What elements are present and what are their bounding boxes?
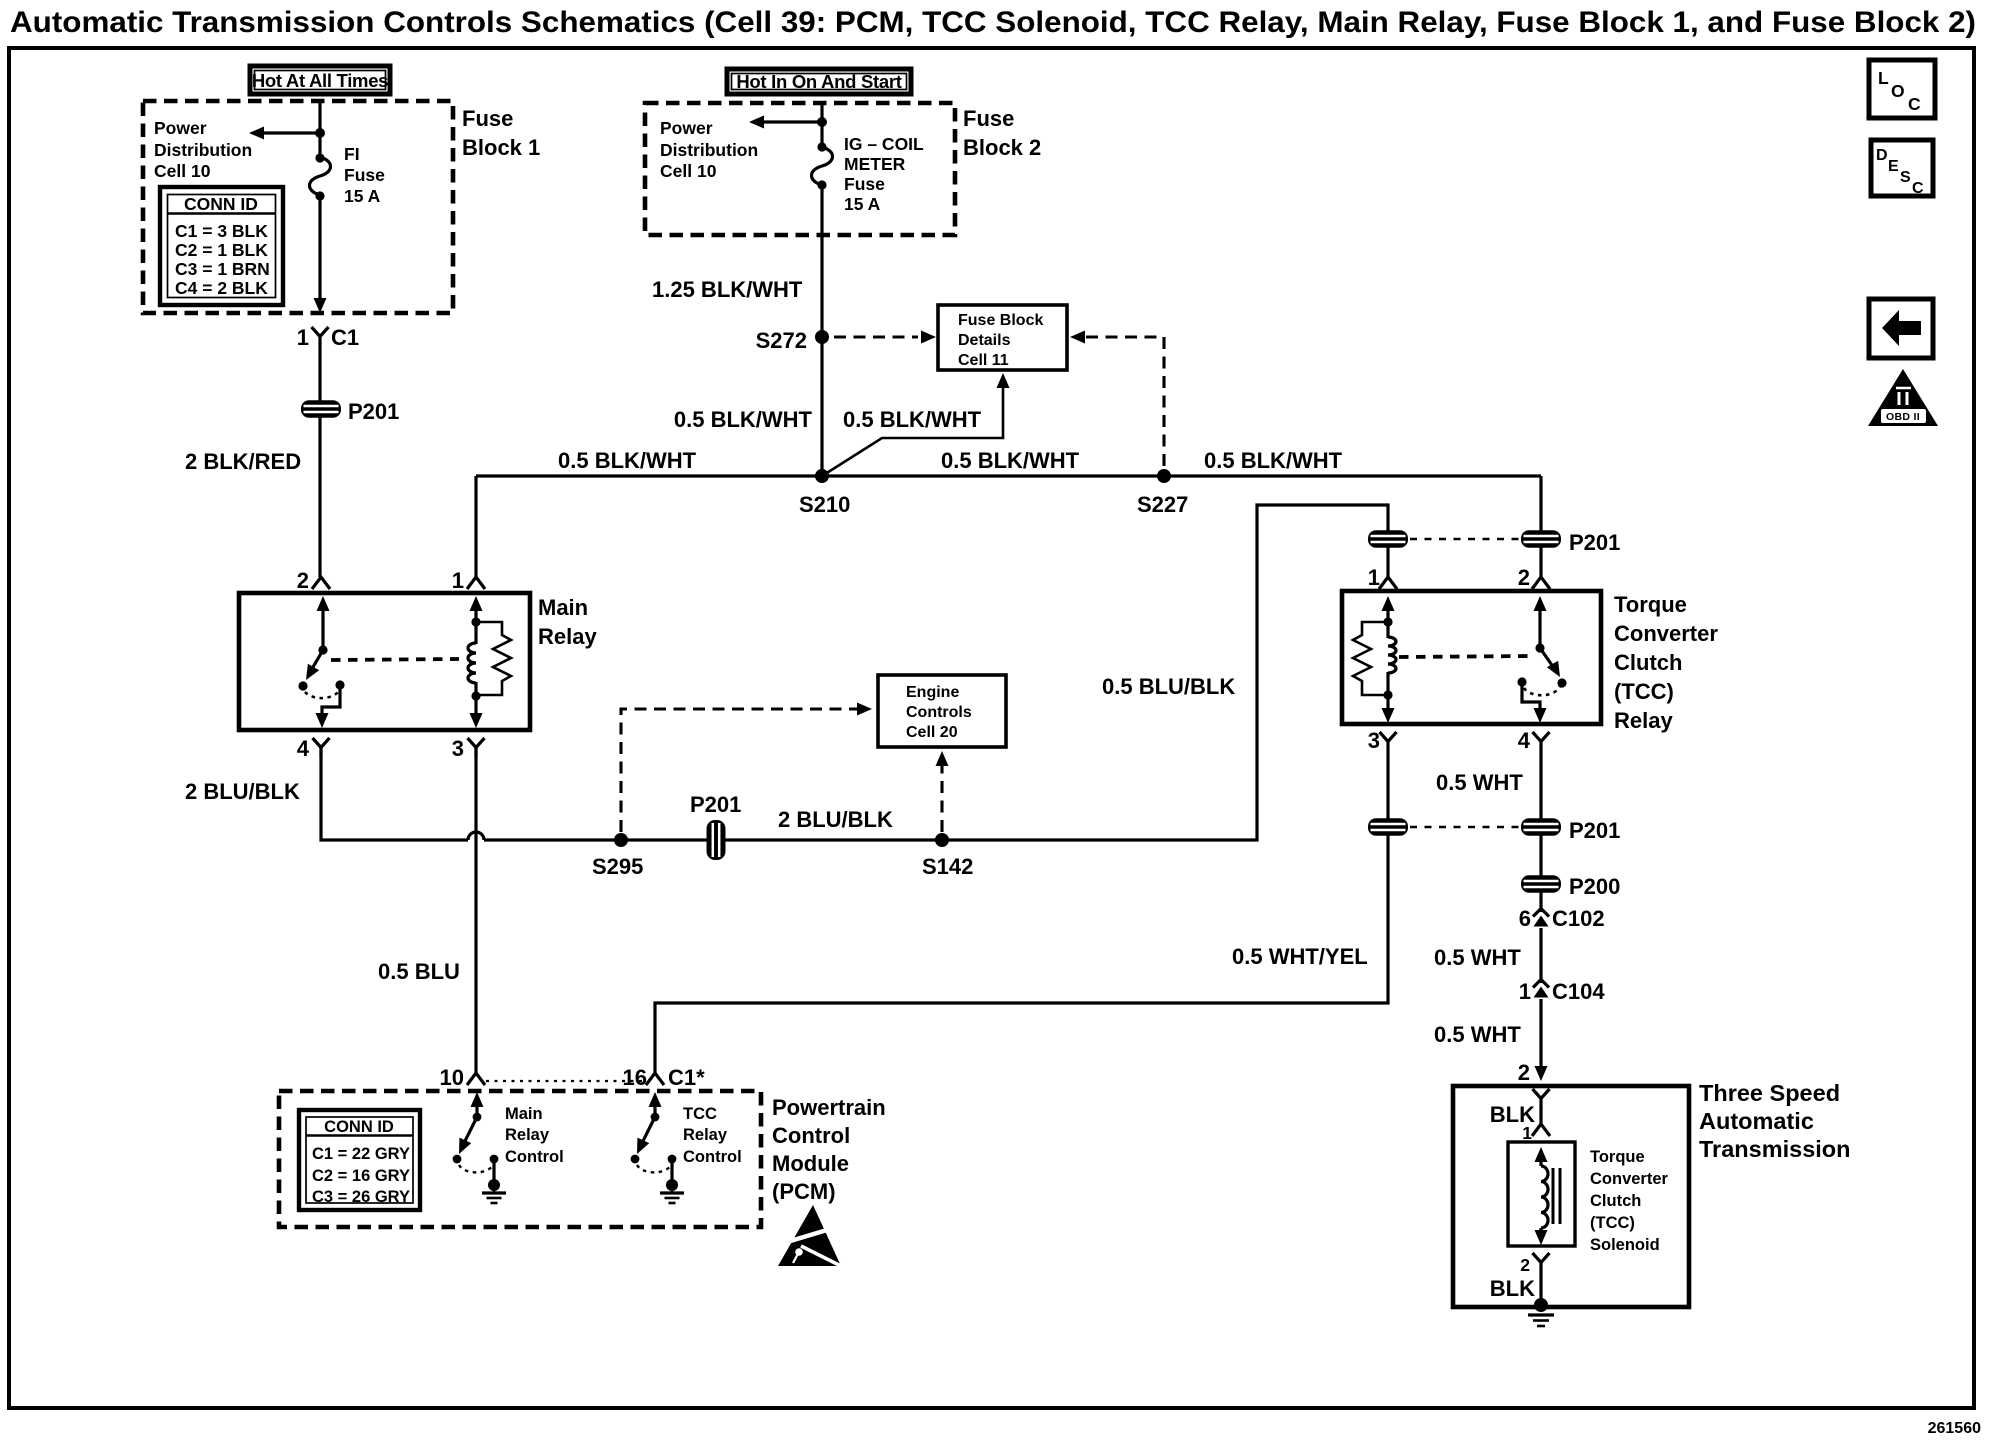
wire hop over 0.5 BLU wire bbox=[468, 832, 484, 840]
svg-text:1.25 BLK/WHT: 1.25 BLK/WHT bbox=[652, 277, 803, 302]
wire S272 to S210 bbox=[820, 337, 823, 476]
svg-text:Fuse: Fuse bbox=[344, 165, 385, 185]
svg-text:L: L bbox=[1878, 68, 1889, 88]
switch (Main Relay) bbox=[298, 596, 344, 728]
svg-text:Cell 11: Cell 11 bbox=[958, 352, 1009, 369]
box Engine Controls Cell 20 bbox=[878, 675, 1006, 747]
node S227 bbox=[1157, 469, 1171, 483]
dashed arrow S295 to Engine Controls bbox=[621, 709, 858, 832]
solenoid TCC Solenoid (box) bbox=[1508, 1142, 1575, 1246]
svg-text:4: 4 bbox=[297, 736, 310, 761]
svg-text:C: C bbox=[1908, 94, 1921, 114]
svg-text:3: 3 bbox=[452, 736, 464, 761]
svg-text:C2 = 1 BLK: C2 = 1 BLK bbox=[175, 240, 268, 260]
mechanical link (Main Relay) bbox=[331, 659, 459, 660]
wire TCC pin 3 down bbox=[1386, 752, 1389, 819]
icon OBD II bbox=[1868, 369, 1938, 426]
node S210 bbox=[815, 469, 829, 483]
driver switch TCC Relay Control bbox=[631, 1092, 677, 1180]
table CONN ID (Fuse Block 1) bbox=[160, 187, 283, 305]
svg-text:S227: S227 bbox=[1137, 492, 1188, 517]
svg-text:C1 = 22 GRY: C1 = 22 GRY bbox=[312, 1145, 410, 1163]
fuse block 1 (dashed enclosure) bbox=[143, 101, 453, 313]
svg-text:D: D bbox=[1876, 147, 1888, 164]
svg-text:IG – COIL: IG – COIL bbox=[844, 134, 924, 154]
svg-text:0.5 BLK/WHT: 0.5 BLK/WHT bbox=[843, 407, 982, 432]
dashed arrow S142 to Engine Controls bbox=[940, 765, 943, 832]
wire bus to TCC relay P201 pin 2 bbox=[1539, 476, 1542, 531]
node S272 bbox=[815, 330, 829, 344]
svg-text:4: 4 bbox=[1518, 728, 1531, 753]
svg-text:FI: FI bbox=[344, 144, 360, 164]
arrow to Power Distribution (FB2) bbox=[761, 120, 822, 123]
svg-text:C3 = 1 BRN: C3 = 1 BRN bbox=[175, 259, 270, 279]
svg-text:Converter: Converter bbox=[1590, 1170, 1669, 1188]
svg-text:Controls: Controls bbox=[906, 704, 972, 721]
ground (transmission case) bbox=[1528, 1298, 1554, 1326]
table CONN ID (PCM) bbox=[299, 1110, 420, 1210]
svg-text:1: 1 bbox=[1519, 979, 1531, 1004]
arrow to Power Distribution (FB1) bbox=[261, 131, 320, 134]
driver switch Main Relay Control bbox=[453, 1092, 499, 1180]
connector boundary line C1 bbox=[486, 1080, 645, 1082]
ground (Main Relay Control) bbox=[482, 1179, 506, 1203]
svg-text:261560: 261560 bbox=[1928, 1420, 1981, 1437]
bus wire 2 BLU/BLK to TCC relay bbox=[484, 505, 1388, 840]
svg-text:BLK: BLK bbox=[1490, 1276, 1535, 1301]
svg-text:Power: Power bbox=[154, 118, 207, 138]
svg-text:O: O bbox=[1891, 81, 1905, 101]
svg-text:Main: Main bbox=[505, 1105, 543, 1123]
svg-text:C2 = 16 GRY: C2 = 16 GRY bbox=[312, 1167, 410, 1185]
svg-text:CONN ID: CONN ID bbox=[184, 194, 258, 214]
svg-text:Main: Main bbox=[538, 595, 588, 620]
svg-text:2: 2 bbox=[1520, 1255, 1530, 1275]
connector P200 bbox=[1521, 875, 1561, 893]
fuse FI 15A (FB1) bbox=[315, 153, 324, 162]
connector P201 (on 2 BLU/BLK bus) bbox=[707, 820, 726, 860]
svg-text:METER: METER bbox=[844, 154, 906, 174]
dashed arrow from S227 to Fuse Block Details bbox=[1070, 331, 1085, 344]
svg-text:C102: C102 bbox=[1552, 906, 1605, 931]
connector P201 (left drop) bbox=[301, 400, 341, 418]
dashed arrow S272 to Fuse Block Details bbox=[834, 335, 918, 338]
svg-text:Relay: Relay bbox=[1614, 708, 1673, 733]
node S142 bbox=[935, 833, 949, 847]
resistor (Main Relay) bbox=[476, 622, 511, 695]
svg-text:TCC: TCC bbox=[683, 1105, 717, 1123]
box Three Speed Automatic Transmission bbox=[1453, 1086, 1689, 1307]
connector 1 C104 bbox=[1533, 980, 1549, 998]
wire to solenoid pin 1 bbox=[1539, 1106, 1542, 1124]
svg-text:6: 6 bbox=[1519, 906, 1531, 931]
wire Main Relay pin 4 to bus 2 BLU/BLK bbox=[321, 747, 468, 840]
svg-text:C3 = 26 GRY: C3 = 26 GRY bbox=[312, 1188, 410, 1206]
wire bus to Main Relay pin 1 bbox=[474, 476, 477, 577]
svg-text:Control: Control bbox=[772, 1123, 850, 1148]
svg-text:P201: P201 bbox=[1569, 530, 1620, 555]
svg-text:0.5 BLU: 0.5 BLU bbox=[378, 959, 460, 984]
svg-text:(TCC): (TCC) bbox=[1590, 1214, 1635, 1232]
svg-text:Block 2: Block 2 bbox=[963, 135, 1041, 160]
svg-text:OBD II: OBD II bbox=[1886, 411, 1920, 423]
svg-text:Control: Control bbox=[683, 1148, 742, 1166]
icon LOC bbox=[1869, 60, 1935, 118]
connector 1 C1 bbox=[312, 327, 329, 347]
svg-text:Torque: Torque bbox=[1614, 592, 1687, 617]
svg-text:(PCM): (PCM) bbox=[772, 1179, 836, 1204]
svg-text:CONN ID: CONN ID bbox=[324, 1118, 394, 1136]
svg-text:Solenoid: Solenoid bbox=[1590, 1236, 1660, 1254]
coil (Main Relay) bbox=[468, 596, 483, 728]
svg-text:C4 = 2 BLK: C4 = 2 BLK bbox=[175, 278, 268, 298]
svg-text:Powertrain: Powertrain bbox=[772, 1095, 886, 1120]
wire C104 to transmission pin 2 (0.5 WHT) bbox=[1539, 999, 1542, 1066]
wire P201 to Main Relay pin 2 (2 BLK/RED) bbox=[318, 417, 321, 577]
svg-text:1: 1 bbox=[452, 568, 464, 593]
svg-text:Converter: Converter bbox=[1614, 621, 1718, 646]
fuse block 2 (dashed enclosure) bbox=[645, 103, 955, 235]
svg-text:S295: S295 bbox=[592, 854, 643, 879]
svg-text:0.5 BLU/BLK: 0.5 BLU/BLK bbox=[1102, 674, 1235, 699]
svg-text:Automatic Transmission Control: Automatic Transmission Controls Schemati… bbox=[10, 6, 1976, 39]
svg-text:2: 2 bbox=[1518, 565, 1530, 590]
svg-text:Clutch: Clutch bbox=[1614, 650, 1682, 675]
svg-text:10: 10 bbox=[440, 1065, 464, 1090]
connector P201 (TCC top pair) bbox=[1368, 530, 1408, 548]
wire P201 to P200 bbox=[1539, 835, 1542, 877]
svg-text:S142: S142 bbox=[922, 854, 973, 879]
svg-text:P200: P200 bbox=[1569, 874, 1620, 899]
svg-text:0.5 BLK/WHT: 0.5 BLK/WHT bbox=[558, 448, 697, 473]
svg-text:Block 1: Block 1 bbox=[462, 135, 540, 160]
symbol ESD warning bbox=[778, 1205, 843, 1267]
svg-text:3: 3 bbox=[1368, 728, 1380, 753]
svg-text:Fuse: Fuse bbox=[844, 174, 885, 194]
svg-text:C: C bbox=[1912, 180, 1924, 197]
wire solenoid to ground bbox=[1539, 1273, 1542, 1305]
wire 0.5 WHT/YEL P201 to PCM pin 16 bbox=[655, 835, 1388, 1073]
svg-text:S272: S272 bbox=[756, 328, 807, 353]
resistor (TCC Relay) bbox=[1353, 622, 1388, 695]
svg-text:Distribution: Distribution bbox=[660, 140, 758, 160]
svg-text:C104: C104 bbox=[1552, 979, 1605, 1004]
svg-text:0.5 BLK/WHT: 0.5 BLK/WHT bbox=[1204, 448, 1343, 473]
svg-text:15 A: 15 A bbox=[844, 194, 881, 214]
svg-text:0.5 BLK/WHT: 0.5 BLK/WHT bbox=[674, 407, 813, 432]
svg-text:Torque: Torque bbox=[1590, 1148, 1645, 1166]
svg-text:Relay: Relay bbox=[538, 624, 597, 649]
junction in FB2 bbox=[817, 117, 827, 127]
wire Main Relay pin 3 to PCM pin 10 (0.5 BLU) bbox=[474, 747, 477, 1073]
svg-text:Power: Power bbox=[660, 118, 713, 138]
svg-text:E: E bbox=[1888, 158, 1899, 175]
svg-text:2 BLU/BLK: 2 BLU/BLK bbox=[778, 807, 893, 832]
svg-text:(TCC): (TCC) bbox=[1614, 679, 1674, 704]
svg-text:1: 1 bbox=[1522, 1123, 1532, 1143]
svg-text:2: 2 bbox=[297, 568, 309, 593]
svg-text:0.5 WHT: 0.5 WHT bbox=[1436, 770, 1523, 795]
wire 1.25 BLK/WHT fuse to S272 bbox=[820, 185, 823, 337]
svg-text:Cell 10: Cell 10 bbox=[154, 161, 211, 181]
relay Main Relay (box) bbox=[239, 593, 530, 730]
svg-text:C1*: C1* bbox=[668, 1065, 705, 1090]
svg-text:Fuse: Fuse bbox=[963, 106, 1014, 131]
svg-text:Relay: Relay bbox=[505, 1126, 550, 1144]
wire FB1 feed from top border bbox=[318, 103, 321, 157]
svg-text:Details: Details bbox=[958, 332, 1011, 349]
svg-text:1: 1 bbox=[297, 325, 309, 350]
svg-text:Transmission: Transmission bbox=[1699, 1136, 1851, 1162]
icon back arrow bbox=[1869, 299, 1933, 358]
wire fuse to connector C1 bbox=[318, 196, 321, 300]
pin 2 entry (transmission) bbox=[1533, 1089, 1550, 1109]
svg-text:Hot At All Times: Hot At All Times bbox=[252, 70, 388, 91]
wire P201 to TCC pin 2 bbox=[1539, 547, 1542, 577]
connector P201 (lower pair) bbox=[1368, 818, 1408, 836]
svg-text:S: S bbox=[1900, 169, 1911, 186]
svg-text:Hot In On And Start: Hot In On And Start bbox=[736, 71, 901, 92]
svg-text:Fuse: Fuse bbox=[462, 106, 513, 131]
junction in FB1 bbox=[315, 128, 325, 138]
svg-text:Clutch: Clutch bbox=[1590, 1192, 1641, 1210]
svg-text:0.5 WHT/YEL: 0.5 WHT/YEL bbox=[1232, 944, 1368, 969]
connector 6 C102 bbox=[1539, 892, 1542, 912]
svg-text:2 BLK/RED: 2 BLK/RED bbox=[185, 449, 301, 474]
svg-text:Three Speed: Three Speed bbox=[1699, 1080, 1840, 1106]
wire FB2 feed from top border bbox=[820, 103, 823, 147]
label Hot In On And Start bbox=[727, 69, 911, 94]
svg-text:15 A: 15 A bbox=[344, 186, 381, 206]
wire C102 to C104 (0.5 WHT) bbox=[1539, 928, 1542, 983]
svg-text:Fuse Block: Fuse Block bbox=[958, 312, 1043, 329]
wire TCC pin 4 down (0.5 WHT) bbox=[1539, 752, 1542, 819]
svg-text:C1 = 3 BLK: C1 = 3 BLK bbox=[175, 221, 268, 241]
svg-text:P201: P201 bbox=[690, 792, 741, 817]
svg-text:0.5 WHT: 0.5 WHT bbox=[1434, 1022, 1521, 1047]
svg-text:S210: S210 bbox=[799, 492, 850, 517]
svg-text:P201: P201 bbox=[348, 399, 399, 424]
svg-text:0.5 BLK/WHT: 0.5 BLK/WHT bbox=[941, 448, 1080, 473]
svg-text:C1: C1 bbox=[331, 325, 359, 350]
label Hot At All Times bbox=[250, 66, 390, 94]
svg-text:0.5 WHT: 0.5 WHT bbox=[1434, 945, 1521, 970]
svg-text:2 BLU/BLK: 2 BLU/BLK bbox=[185, 779, 300, 804]
mechanical link (TCC Relay) bbox=[1399, 656, 1532, 657]
svg-text:2: 2 bbox=[1518, 1060, 1530, 1085]
svg-text:Automatic: Automatic bbox=[1699, 1108, 1814, 1134]
svg-text:Module: Module bbox=[772, 1151, 849, 1176]
svg-text:P201: P201 bbox=[1569, 818, 1620, 843]
ground (TCC Relay Control) bbox=[660, 1179, 684, 1203]
bus wire 0.5 BLK/WHT (horizontal) bbox=[476, 474, 1541, 477]
svg-text:16: 16 bbox=[623, 1065, 647, 1090]
coil (TCC Relay) bbox=[1382, 596, 1397, 723]
switch (TCC Relay) bbox=[1517, 596, 1566, 723]
fuse IG-COIL METER 15A (FB2) bbox=[817, 142, 826, 151]
svg-text:1: 1 bbox=[1368, 565, 1380, 590]
svg-text:Engine: Engine bbox=[906, 684, 959, 701]
svg-text:Distribution: Distribution bbox=[154, 140, 252, 160]
wire P201 to TCC pin 1 bbox=[1386, 547, 1389, 577]
module PCM (dashed box) bbox=[279, 1091, 761, 1227]
icon DESC bbox=[1871, 140, 1933, 197]
svg-text:Relay: Relay bbox=[683, 1126, 728, 1144]
svg-text:Cell 10: Cell 10 bbox=[660, 161, 717, 181]
node S295 bbox=[614, 833, 628, 847]
svg-text:Cell 20: Cell 20 bbox=[906, 724, 958, 741]
wire C1 to P201 bbox=[318, 347, 321, 401]
box Fuse Block Details Cell 11 bbox=[938, 305, 1067, 370]
svg-text:Control: Control bbox=[505, 1148, 564, 1166]
coil (TCC Solenoid) bbox=[1535, 1147, 1561, 1245]
relay TCC (box) bbox=[1342, 591, 1601, 724]
